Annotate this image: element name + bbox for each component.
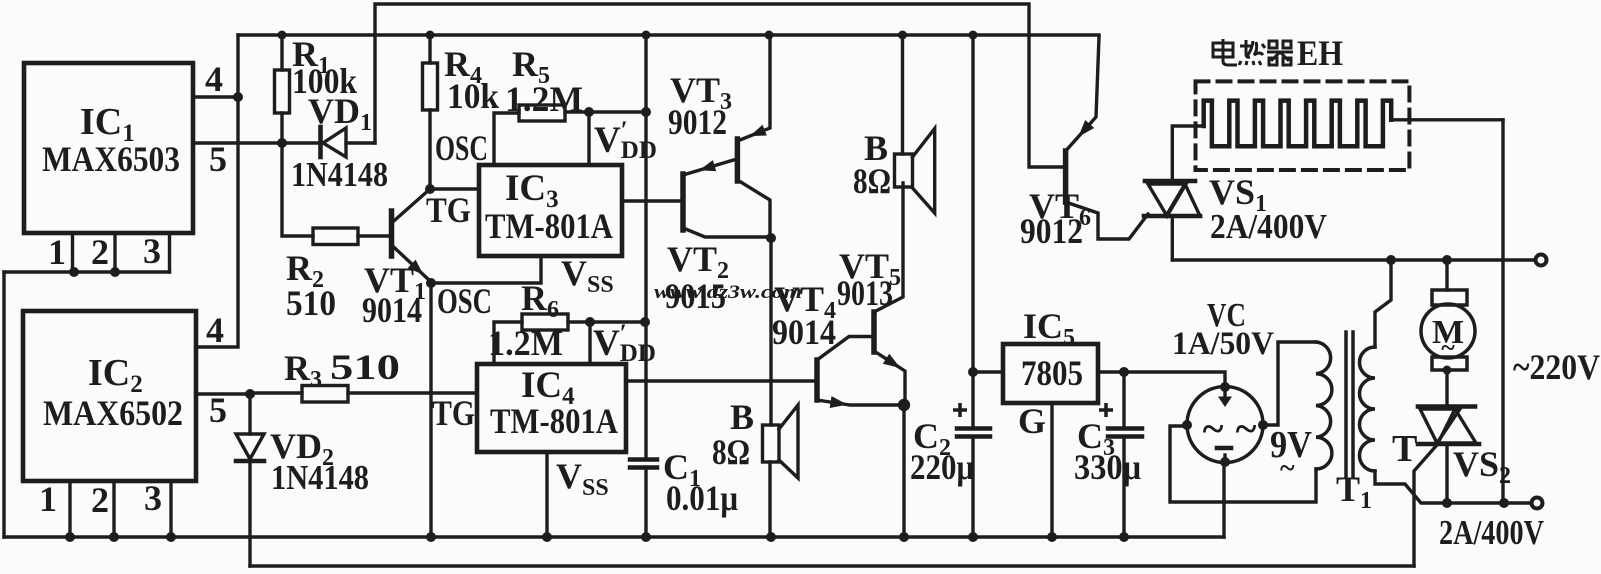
resistor R1 — [280, 35, 283, 70]
wire 7805 input from bridge — [1098, 372, 1225, 387]
node VS2 bottom — [1442, 498, 1452, 508]
node T1 primary top — [1386, 255, 1396, 265]
speaker B1 — [763, 425, 780, 462]
svg-text:5: 5 — [209, 139, 227, 179]
terminal mains bottom — [1532, 498, 1543, 509]
resistor R3 — [250, 391, 302, 394]
svg-text:8Ω: 8Ω — [853, 161, 891, 201]
svg-text:OSC: OSC — [435, 128, 488, 168]
IC3 TM-801A box — [479, 165, 622, 256]
svg-text:www.dz3w.com: www.dz3w.com — [654, 282, 802, 303]
svg-text:2A/400V: 2A/400V — [1439, 513, 1544, 552]
svg-text:G: G — [1018, 401, 1046, 441]
wire VT4 VT5 emitters to ground — [902, 405, 905, 537]
transistor VT4 9014 — [814, 360, 820, 400]
IC1 MAX6503 box — [24, 63, 193, 233]
svg-text:1.2M: 1.2M — [505, 79, 583, 119]
wire IC4 OSC pin — [494, 322, 522, 364]
wire IC3 OSC pin — [494, 113, 519, 165]
bridge rectifier VC circle — [1187, 387, 1263, 463]
node IC1 pins gnd — [69, 267, 79, 277]
transformer T1 secondary 9V winding — [1316, 342, 1332, 469]
wire mains live line — [1172, 258, 1535, 261]
node VT1 emitter — [426, 278, 436, 288]
node IC2 pin5 R3 VD2 — [245, 389, 255, 399]
wire IC4 output to VT4 base — [626, 379, 817, 382]
wire motor feed — [1445, 260, 1448, 290]
svg-text:TG: TG — [432, 393, 475, 433]
bridge minus mark — [1217, 446, 1231, 451]
wire vertical node to IC2 pin 4 — [196, 35, 238, 347]
IC1 pin 2 lead — [113, 233, 116, 272]
svg-text:2: 2 — [91, 480, 109, 520]
svg-text:~: ~ — [1236, 406, 1257, 451]
node motor feed — [1442, 255, 1452, 265]
resistor R5 — [519, 105, 565, 121]
resistor R4 — [428, 35, 431, 63]
resistor R2 — [282, 143, 313, 236]
arrow bridge rectifier — [1218, 397, 1232, 408]
svg-text:3: 3 — [144, 478, 162, 518]
svg-text:B: B — [730, 397, 754, 437]
transistor VT5 9013 — [871, 312, 877, 352]
svg-text:~220V: ~220V — [1513, 347, 1600, 387]
wire 7805 ground pin — [1050, 403, 1053, 537]
wire VT3 collector to speaker B1 — [769, 238, 772, 425]
heater EH dashed enclosure — [1196, 81, 1410, 170]
arrow VT5 emitter — [883, 354, 901, 368]
wire IC3 VDD stub — [587, 112, 590, 165]
wire mains bottom line — [1375, 471, 1532, 503]
junction dots on +5V rail — [278, 31, 287, 40]
node bridge terminals — [1220, 382, 1230, 392]
wire heater right lead — [1391, 118, 1503, 121]
IC2 MAX6502 box — [23, 311, 196, 481]
svg-text:9014: 9014 — [772, 312, 836, 352]
svg-text:1: 1 — [39, 479, 57, 519]
transistor VT6 9012 — [1063, 151, 1069, 202]
wire ground rail — [4, 535, 1224, 538]
svg-text:~: ~ — [1203, 406, 1224, 451]
wire heater lead down to mains — [1501, 120, 1504, 503]
svg-text:OSC: OSC — [437, 281, 492, 321]
svg-text:4: 4 — [206, 310, 224, 350]
node heater lead bottom — [1499, 498, 1509, 508]
svg-text:9013: 9013 — [837, 273, 893, 313]
label heater EH chinese — [1213, 39, 1293, 65]
svg-text:5: 5 — [209, 390, 227, 430]
wire ground rail up to bridge bottom — [1222, 463, 1225, 537]
IC4 TM-801A box — [477, 364, 626, 452]
node TG1 — [425, 184, 435, 194]
arrow VT1 emitter — [408, 260, 424, 275]
terminal mains top — [1536, 255, 1547, 266]
motor M — [1432, 290, 1467, 305]
wire IC3 output — [622, 199, 683, 202]
node IC1 pin5 R1 VD1 — [277, 138, 287, 148]
wire VS1 anode to heater — [1172, 126, 1203, 181]
wire VT1 emitter to ground — [429, 283, 432, 537]
svg-text:MAX6502: MAX6502 — [43, 393, 183, 433]
node IC1 pin4 — [233, 92, 243, 102]
svg-text:9012: 9012 — [668, 102, 727, 142]
wire VS2 cathode down — [1445, 444, 1448, 503]
wire +5V rail — [238, 33, 1099, 36]
junction dots on ground rail — [65, 532, 75, 542]
svg-text:1A/50V: 1A/50V — [1172, 326, 1274, 362]
wire trigger bus bottom — [250, 564, 1414, 567]
wire IC4 VDD stub — [588, 322, 591, 364]
IC2 pin 3 lead — [169, 481, 172, 537]
wire T1 primary top — [1375, 260, 1391, 347]
svg-text:3: 3 — [143, 231, 161, 271]
IC1 pin 3 lead — [168, 233, 171, 272]
triac VS2 — [1418, 404, 1475, 409]
bridge top stub arrow — [1223, 388, 1226, 398]
node motor bottom — [1443, 366, 1452, 375]
wire T1 secondary bottom to bridge left — [1170, 426, 1316, 502]
svg-text:T: T — [1392, 428, 1417, 470]
svg-text:9014: 9014 — [362, 290, 422, 330]
svg-text:2A/400V: 2A/400V — [1210, 207, 1327, 246]
heater element EH zigzag — [1204, 101, 1392, 147]
svg-text:510: 510 — [286, 283, 336, 323]
capacitor C3 — [1122, 372, 1125, 429]
svg-text:~: ~ — [1441, 333, 1455, 362]
diode VD1 — [282, 141, 320, 144]
svg-text:TM-801A: TM-801A — [490, 401, 618, 441]
svg-text:330μ: 330μ — [1074, 447, 1141, 487]
node VT2 VT3 collectors — [766, 233, 776, 243]
svg-text:10k: 10k — [447, 76, 499, 116]
wire IC2 pin 5 — [196, 392, 250, 395]
wire TG to IC3 — [430, 187, 479, 190]
transformer T1 core — [1344, 332, 1348, 477]
IC2 pin 1 lead — [68, 481, 71, 537]
node VT4 VT5 emitters — [898, 399, 910, 411]
IC5 7805 box — [1003, 344, 1098, 403]
arrow VT4 emitter — [830, 396, 848, 408]
triac VS1 — [1145, 179, 1195, 184]
wire VS1 cathode to live line — [1171, 216, 1174, 260]
wire 7805 output — [973, 370, 1003, 373]
wire IC1 pins to left ground bus — [4, 270, 170, 273]
wire IC3 VSS — [431, 256, 541, 283]
svg-text:TM-801A: TM-801A — [485, 206, 613, 246]
svg-text:EH: EH — [1297, 33, 1343, 73]
IC1 pin 1 lead — [71, 233, 74, 272]
transistor VT3 9012 — [735, 139, 741, 181]
arrow VT2 emitter — [699, 160, 716, 171]
svg-text:8Ω: 8Ω — [712, 432, 750, 472]
wire IC1 pin 4 — [193, 95, 238, 98]
wire top loop from VD1 to VT6 base — [375, 4, 1066, 167]
transistor VT1 9014 — [389, 211, 395, 256]
svg-text:7805: 7805 — [1021, 353, 1083, 393]
svg-text:TG: TG — [426, 190, 471, 230]
svg-text:510: 510 — [330, 347, 400, 387]
node R6 VDD — [585, 317, 595, 327]
svg-text:4: 4 — [205, 59, 223, 99]
wire IC1 pin 5 — [193, 141, 282, 144]
transformer T1 primary winding — [1359, 347, 1375, 471]
node R5 VDD — [584, 107, 594, 117]
svg-text:0.01μ: 0.01μ — [666, 478, 738, 518]
svg-text:1N4148: 1N4148 — [271, 458, 369, 497]
transistor VT2 9015 — [680, 174, 686, 230]
svg-text:1: 1 — [48, 232, 66, 272]
svg-text:1N4148: 1N4148 — [291, 155, 388, 194]
svg-text:220μ: 220μ — [910, 447, 974, 487]
capacitor C2 — [971, 35, 974, 429]
wire VDD vertical — [644, 35, 647, 459]
arrow VT6 emitter — [1078, 120, 1094, 137]
speaker B2 — [901, 35, 904, 154]
wire left ground bus vertical — [2, 272, 5, 537]
svg-text:2: 2 — [91, 232, 109, 272]
plus C3 — [1099, 403, 1113, 417]
svg-text:MAX6503: MAX6503 — [42, 139, 180, 179]
wire VS2 gate — [1414, 446, 1436, 566]
wire bridge right to T1 secondary top — [1263, 342, 1316, 425]
IC2 pin 2 lead — [112, 481, 115, 537]
capacitor C1 — [630, 457, 657, 462]
node 7805 input C3 — [1119, 367, 1129, 377]
bridge minus stub — [1223, 455, 1226, 462]
svg-text:1.2M: 1.2M — [488, 323, 563, 363]
svg-text:~: ~ — [1280, 453, 1295, 484]
resistor R6 — [522, 314, 568, 330]
wire IC4 VSS to ground — [545, 452, 548, 537]
svg-text:9012: 9012 — [1020, 211, 1083, 251]
node 7805 output — [968, 367, 978, 377]
plus C2 — [953, 403, 967, 417]
diode VD2 — [248, 394, 251, 434]
arrow VT3 emitter — [750, 125, 767, 136]
